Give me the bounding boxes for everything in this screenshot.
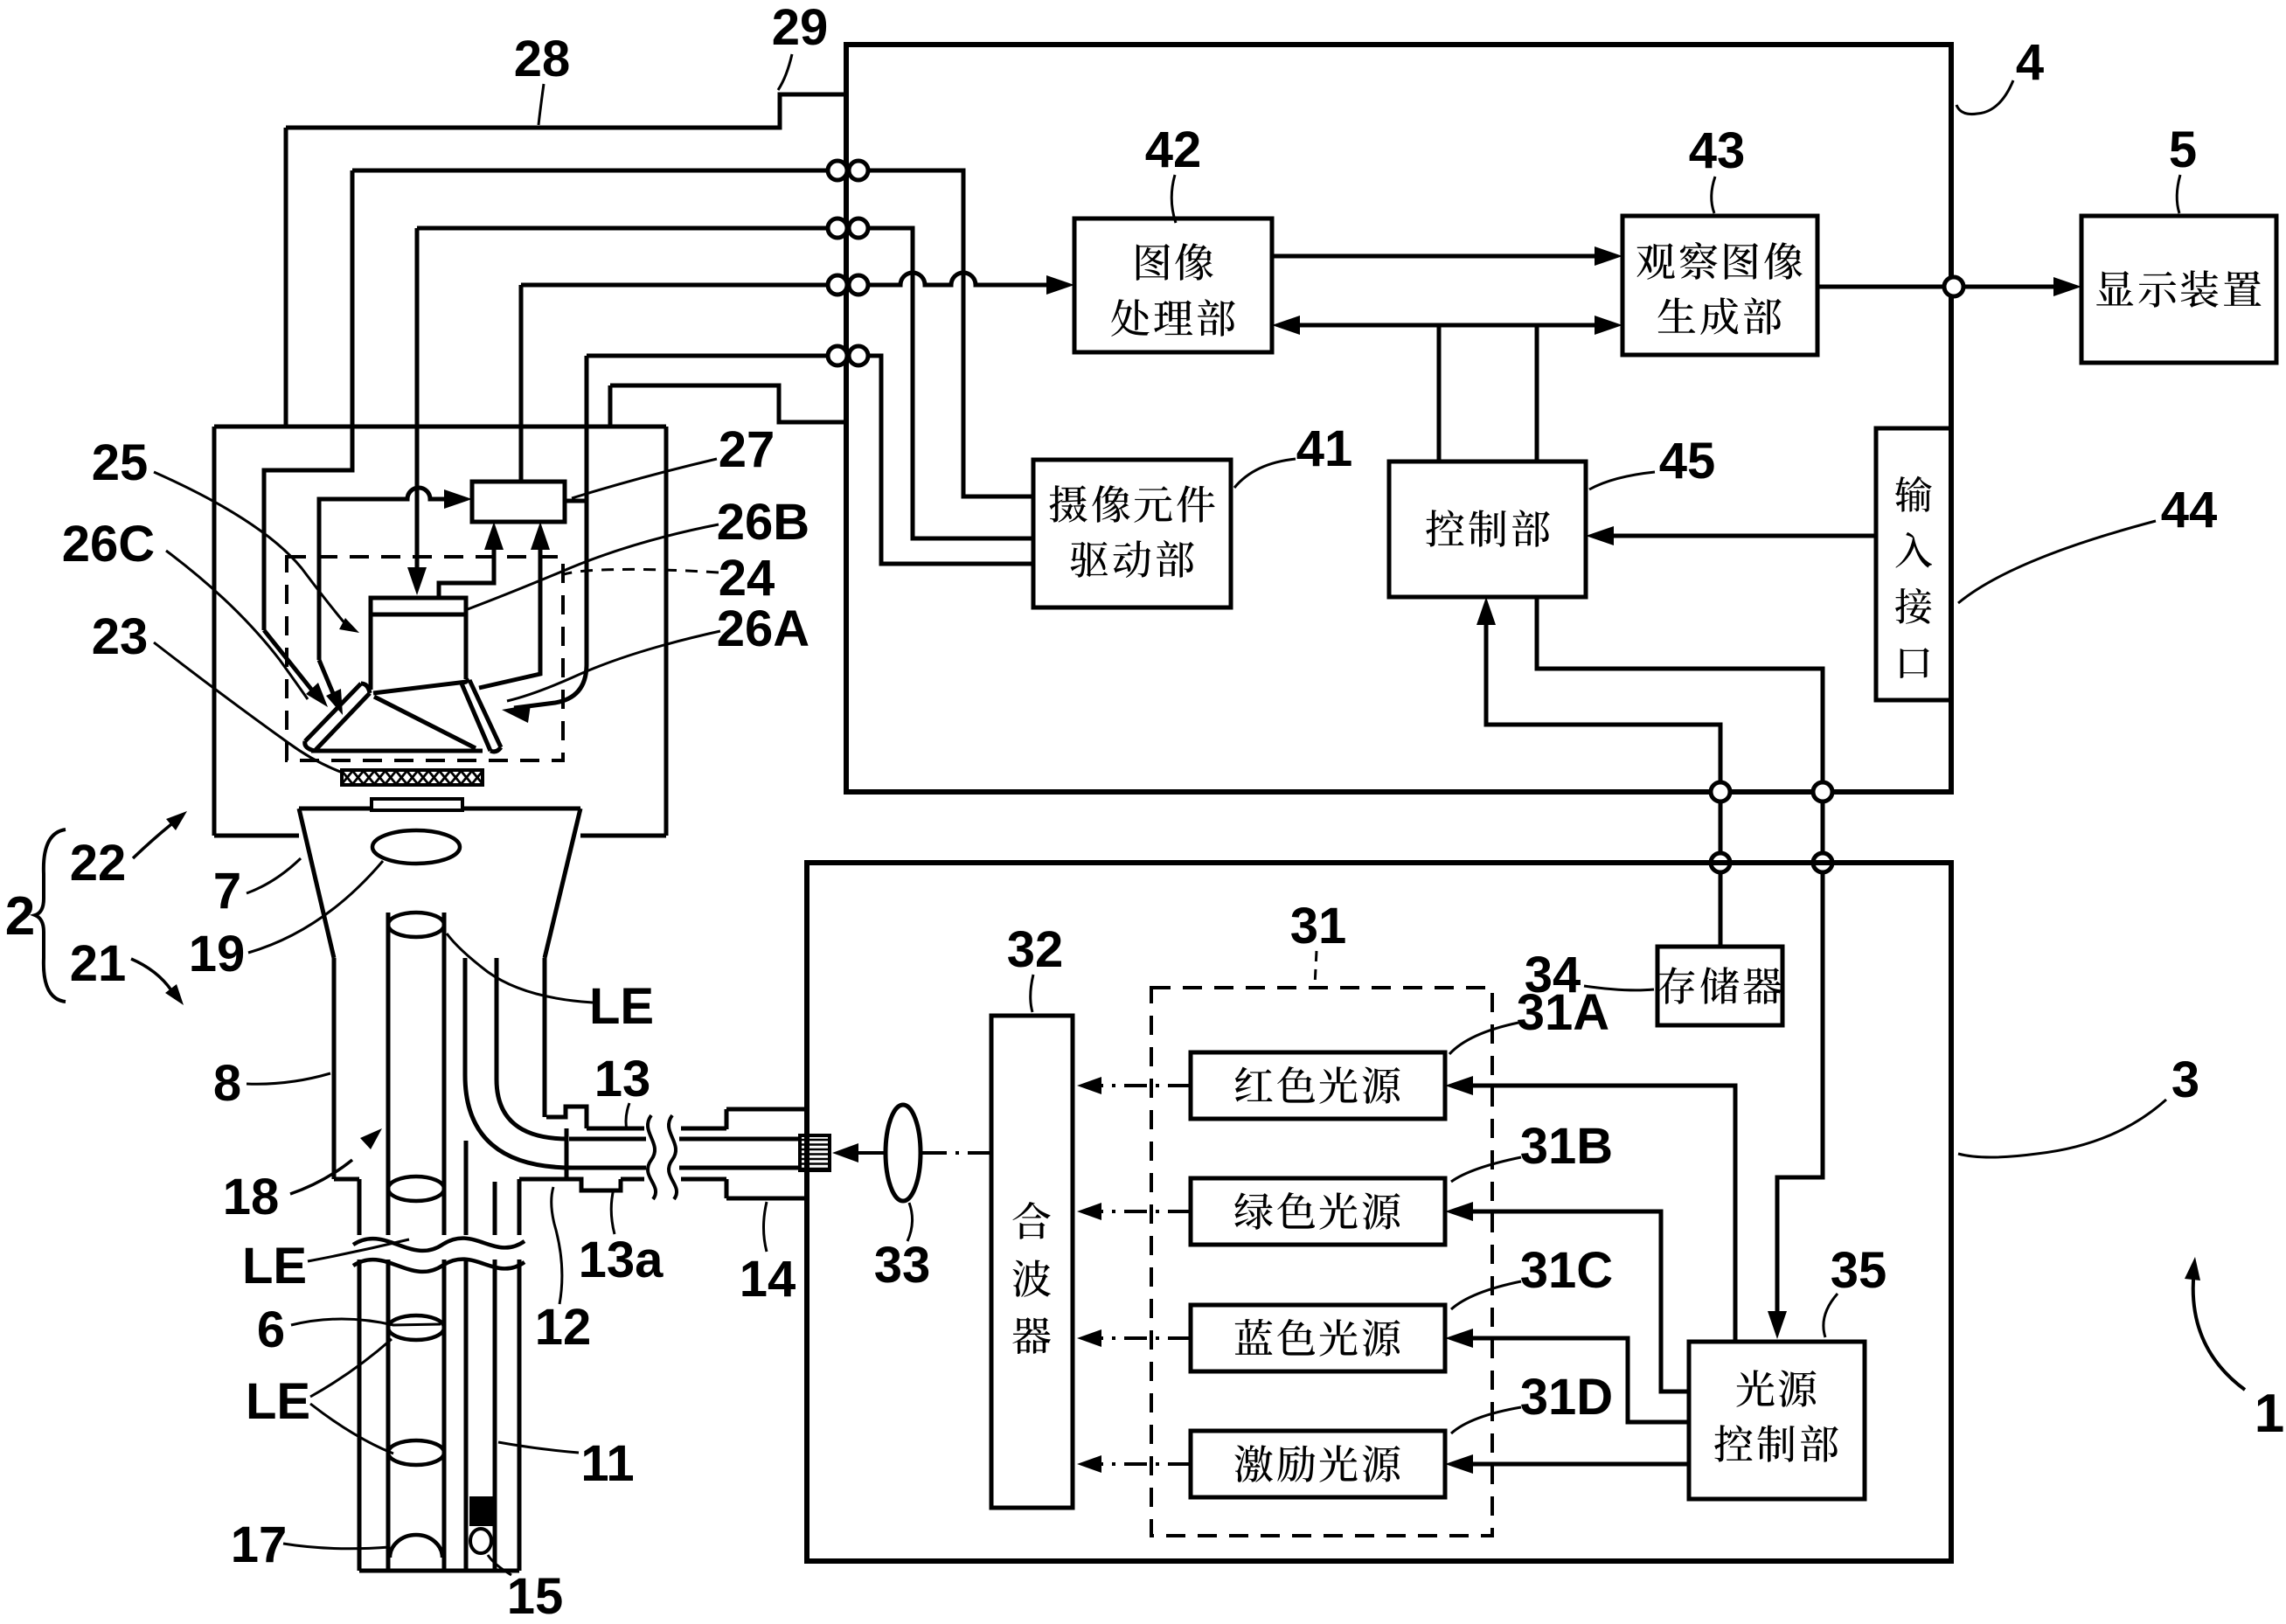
svg-text:7: 7 [213, 863, 241, 920]
signal wire row 3 horizontal [521, 283, 828, 288]
leader for label 7 [247, 858, 301, 893]
sensor plate 26C on left face [305, 684, 370, 751]
green light source box 31B [1191, 1178, 1445, 1245]
leader for label 26A [507, 631, 720, 701]
leader for label 19 [248, 861, 383, 953]
cable 13 outer jacket [587, 1127, 644, 1131]
svg-text:42: 42 [1145, 121, 1202, 178]
leader for label 27 [572, 459, 717, 498]
insertion tube bottom end [359, 1569, 519, 1573]
light guide elbow to cable [465, 1075, 573, 1168]
insertion tube outer walls 6 [358, 1179, 362, 1235]
svg-text:44: 44 [2161, 482, 2218, 538]
signal wire row 2 horizontal [417, 226, 828, 231]
relay lens LE lower [388, 1315, 444, 1340]
leader for label 4 [1956, 80, 2013, 115]
fluorescence tip 15 black [469, 1496, 495, 1526]
cable exit boss on handle [546, 1107, 587, 1128]
svg-text:23: 23 [92, 608, 149, 665]
cover glass plate with hatch [342, 770, 483, 785]
connector circle pair row 3 [828, 275, 847, 295]
leader for label 26C [166, 551, 308, 699]
svg-text:32: 32 [1007, 921, 1064, 978]
objective lens 17 dome [390, 1535, 442, 1558]
leader for label 6 [291, 1319, 441, 1325]
signal wire row 4 horizontal [587, 354, 828, 358]
leader for label 14 [764, 1202, 768, 1252]
leader for label 3 [1958, 1100, 2166, 1157]
leader for label 12 [552, 1187, 562, 1304]
input interface box 44 [1876, 428, 1951, 700]
leader for label LE lower forked [310, 1339, 392, 1397]
svg-text:13: 13 [594, 1051, 651, 1107]
leader for label 11 [498, 1442, 579, 1453]
svg-text:LE: LE [242, 1238, 307, 1294]
svg-text:LE: LE [246, 1373, 310, 1430]
beam arrow into fiber connector [845, 1151, 886, 1155]
wire input interface 44 to control part 45 [1597, 534, 1876, 538]
processor unit box 4 outline [846, 45, 1951, 792]
prism top edge [373, 682, 467, 693]
beam blue to combiner dash-dot [1091, 1336, 1191, 1340]
scope break symbol [353, 1239, 525, 1251]
svg-text:15: 15 [507, 1568, 564, 1620]
leader for label 8 [247, 1073, 330, 1084]
svg-text:19: 19 [189, 926, 246, 982]
arrow for label 1 [2193, 1269, 2245, 1390]
svg-text:31: 31 [1290, 898, 1347, 954]
leader for label 44 [1958, 521, 2156, 603]
svg-text:45: 45 [1659, 433, 1716, 489]
leader for label 25 arrow at element [154, 472, 346, 625]
leader for label 41 [1234, 459, 1296, 488]
light guide channel walls 11 [463, 958, 468, 1075]
leader for label 15 [488, 1555, 511, 1575]
leader for label 31D [1451, 1407, 1521, 1433]
leader for label 13a [611, 1189, 615, 1234]
svg-text:6: 6 [257, 1301, 285, 1358]
wire row3 vertical to circuit 27 [519, 285, 524, 482]
leader for label 42 [1171, 175, 1176, 223]
wire 35 to excitation source 31D [1458, 1462, 1689, 1467]
wire memory 34 to control part 45 through connectors [1477, 597, 1496, 625]
svg-text:25: 25 [92, 434, 149, 491]
light guide socket 12 face [565, 1128, 569, 1179]
svg-text:8: 8 [213, 1055, 241, 1112]
tip lens 15 [470, 1529, 491, 1553]
cable 13 break symbol [648, 1115, 656, 1199]
svg-text:14: 14 [740, 1251, 796, 1308]
beam green to combiner dash-dot [1091, 1210, 1191, 1213]
beam excitation to combiner dash-dot [1091, 1462, 1191, 1466]
svg-text:17: 17 [231, 1516, 288, 1573]
leader for label 32 [1031, 975, 1033, 1012]
wire sensor 26A to circuit 27 [479, 535, 540, 688]
step to insertion tube [334, 1177, 359, 1182]
relay lens tube walls 18 [386, 913, 391, 1235]
wire row1 vertical to sensor 26C with arrow [264, 170, 352, 630]
leader for label 26B [468, 524, 719, 609]
beam red to combiner dash-dot [1091, 1084, 1191, 1087]
combiner box 32 [991, 1016, 1073, 1508]
svg-text:13a: 13a [579, 1232, 664, 1288]
connector circle pair row 1 [828, 161, 847, 180]
svg-text:43: 43 [1689, 122, 1746, 179]
svg-text:22: 22 [70, 835, 127, 892]
wire 42 to 43 [1272, 254, 1611, 259]
leader for label 13 [626, 1103, 629, 1130]
svg-text:4: 4 [2016, 34, 2044, 91]
signal wire row 1 horizontal [352, 169, 828, 173]
display device box 5 [2081, 216, 2276, 363]
leader for label 35 [1824, 1294, 1838, 1337]
arrow for label 22 [133, 824, 171, 858]
svg-text:31D: 31D [1520, 1369, 1613, 1426]
camera-head ground wire to box 4 (step) [610, 385, 846, 422]
relay lens LE mid [388, 1176, 444, 1201]
eyepiece lens ellipse [372, 830, 460, 864]
leader for label 17 [283, 1544, 390, 1549]
wire row4 vertical to sensor 26A with arrow [514, 356, 587, 708]
dashed box 26 around prism unit [287, 557, 563, 760]
wire 35 to blue source 31C [1458, 1338, 1689, 1422]
blue light source box 31C [1191, 1305, 1445, 1371]
svg-text:33: 33 [874, 1237, 931, 1294]
svg-text:29: 29 [772, 0, 829, 56]
row 2 wire inside box 4 [868, 228, 1033, 538]
svg-text:18: 18 [223, 1169, 280, 1225]
leader for label 28 [538, 84, 544, 125]
wire row2 vertical to imaging element 24 with arrow [415, 228, 420, 580]
svg-text:21: 21 [70, 935, 127, 992]
leader for label 31B [1451, 1157, 1521, 1182]
svg-text:11: 11 [580, 1435, 634, 1492]
adapter cone slant sides [299, 809, 334, 958]
wire 43 output to display with connector node [1817, 285, 1944, 289]
svg-text:3: 3 [2171, 1051, 2199, 1108]
image processing part box 42 [1074, 219, 1272, 352]
leader for label 31C [1451, 1281, 1521, 1309]
brace for group 2 [35, 829, 66, 1002]
imaging element drive part box 41 [1033, 460, 1231, 607]
svg-text:26A: 26A [717, 600, 809, 657]
leader for label 45 [1589, 472, 1655, 489]
leader for label 5 [2177, 175, 2180, 213]
light source control part box 35 [1689, 1342, 1865, 1499]
control part box 45 [1389, 462, 1586, 597]
arrow for label 21 [131, 959, 171, 990]
wire 35 to green source 31B [1458, 1211, 1689, 1392]
sensor plate 26A on right face [462, 680, 501, 752]
adapter cone 7 top edge and window 19 [299, 807, 372, 811]
circuit box 27 [472, 482, 565, 522]
leader for label 29 [778, 54, 792, 90]
svg-text:28: 28 [514, 31, 571, 87]
svg-text:12: 12 [535, 1299, 592, 1356]
svg-text:24: 24 [719, 550, 775, 607]
svg-text:41: 41 [1296, 420, 1353, 477]
wire control part 45 to light source control 35 through connectors [1537, 597, 1823, 782]
optical axis dash-dot from combiner to lens [921, 1151, 991, 1155]
svg-text:35: 35 [1831, 1242, 1887, 1299]
svg-text:31B: 31B [1520, 1118, 1613, 1175]
leader for label 23 [154, 642, 343, 773]
row 4 wire inside box 4 [868, 356, 1033, 564]
leader for label 33 [907, 1203, 913, 1241]
svg-text:26B: 26B [717, 494, 809, 551]
dashed leader for label 24 [564, 569, 719, 574]
leader for label 43 [1712, 177, 1715, 213]
svg-text:27: 27 [719, 421, 775, 478]
svg-text:31C: 31C [1520, 1242, 1613, 1299]
leader for label 34 [1584, 986, 1654, 990]
relay lens LE bottom [388, 1440, 444, 1465]
prism bottom face [311, 749, 483, 753]
observation image generation part box 43 [1622, 216, 1817, 355]
row 3 wire to image processing part with crossover humps [868, 273, 1063, 285]
svg-text:2: 2 [5, 886, 35, 947]
light guide connector 14 flange [726, 1107, 807, 1112]
svg-text:31A: 31A [1517, 984, 1609, 1041]
wire 29 notch into box 4 [286, 94, 846, 128]
handle body sides 8 [332, 958, 337, 1179]
wire 35 to red source 31A [1458, 1086, 1735, 1342]
leader for label LE top [447, 933, 593, 1003]
fiber ferrule with hatch [800, 1135, 830, 1170]
leader for label 31A [1449, 1023, 1518, 1054]
wire control part 45 to 42 and 43 [1283, 323, 1611, 328]
condensing lens 33 [886, 1105, 921, 1201]
wire element 24 to circuit 27 [439, 535, 494, 598]
svg-text:1: 1 [2255, 1384, 2284, 1444]
leader for label LE mid [308, 1239, 409, 1261]
row 1 wire inside box 4 [868, 170, 1033, 496]
red light source box 31A [1191, 1052, 1445, 1119]
dashed leader for label 31 [1315, 951, 1317, 986]
connector circle pair row 2 [828, 219, 847, 238]
svg-text:5: 5 [2169, 121, 2197, 178]
svg-text:26C: 26C [62, 516, 155, 573]
cable 13 inner light guide lines [569, 1137, 646, 1142]
prism diagonal mirror [374, 697, 476, 748]
wire circuit 27 right tap [565, 499, 587, 503]
connector circle pair row 4 [828, 346, 847, 365]
svg-text:LE: LE [589, 978, 654, 1035]
light source device box 3 outline [807, 863, 1951, 1561]
memory box 34 [1657, 947, 1782, 1025]
dashed box 31 around light sources [1151, 988, 1492, 1536]
camera head box 22 [214, 425, 666, 429]
wire 28 vertical to camera head [284, 128, 288, 427]
imaging element 24 [371, 598, 466, 690]
wire sensor 26C to circuit 27 with hump [319, 488, 461, 660]
relay tube top lens LE [388, 913, 444, 937]
excitation light source box 31D [1191, 1431, 1445, 1497]
